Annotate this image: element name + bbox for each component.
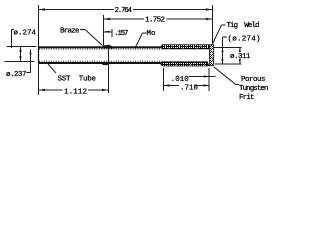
svg-text:(ø.274): (ø.274) <box>228 36 261 44</box>
svg-text:2.764: 2.764 <box>115 7 133 15</box>
svg-text:Frit: Frit <box>239 94 255 102</box>
svg-text:.010: .010 <box>171 76 190 84</box>
svg-text:Mo: Mo <box>147 30 156 38</box>
svg-text:SST Tube: SST Tube <box>58 75 97 83</box>
svg-text:ø.237: ø.237 <box>6 71 27 79</box>
svg-text:1.112: 1.112 <box>64 88 87 96</box>
svg-text:Porous: Porous <box>241 76 266 84</box>
svg-text:Tungsten: Tungsten <box>239 85 269 93</box>
svg-text:Braze: Braze <box>60 27 80 35</box>
svg-text:.157: .157 <box>114 30 129 38</box>
svg-text:Tig Weld: Tig Weld <box>227 22 260 30</box>
svg-text:.710: .710 <box>180 84 199 92</box>
svg-text:1.752: 1.752 <box>145 17 165 25</box>
svg-text:ø.274: ø.274 <box>14 29 37 37</box>
svg-text:ø.311: ø.311 <box>230 53 251 61</box>
